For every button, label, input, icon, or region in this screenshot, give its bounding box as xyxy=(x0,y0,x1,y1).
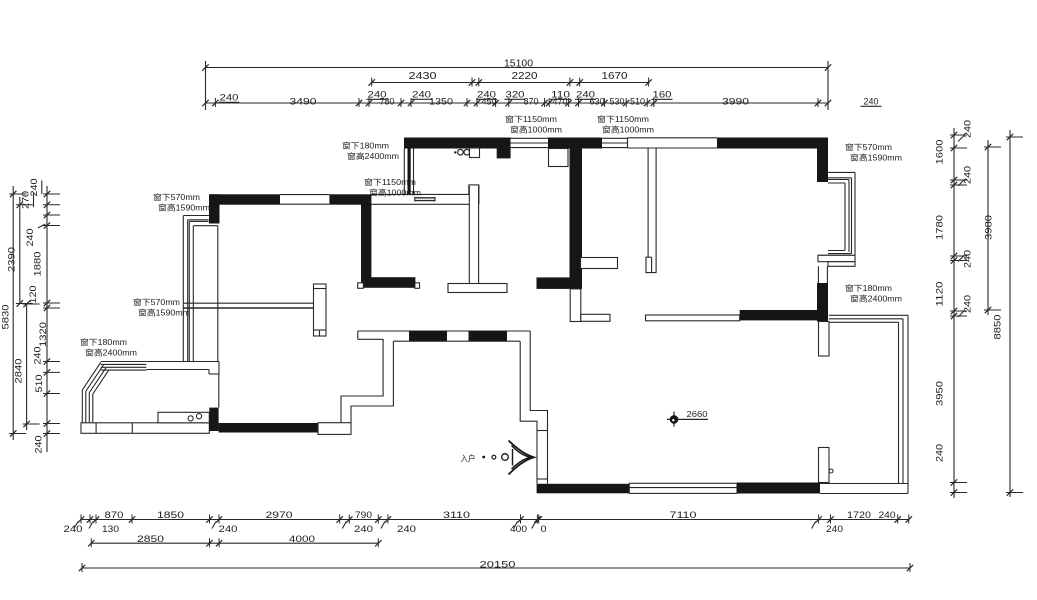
outer wall top-3 (black) xyxy=(718,138,828,149)
svg-text:510: 510 xyxy=(630,97,645,107)
2660 survey marker xyxy=(673,412,675,427)
svg-text:1350: 1350 xyxy=(429,97,453,107)
svg-text:160: 160 xyxy=(653,90,672,100)
svg-text:130: 130 xyxy=(102,524,119,534)
fixture circle xyxy=(458,149,464,155)
svg-text:3490: 3490 xyxy=(290,97,317,107)
window gap bedroom1 top wall xyxy=(280,194,329,196)
door frame square A xyxy=(358,283,364,289)
svg-text:3980: 3980 xyxy=(984,215,994,240)
balcony top edge lines xyxy=(829,314,908,316)
upper-left wall column of top section xyxy=(403,149,405,195)
svg-text:1780: 1780 xyxy=(935,215,945,240)
svg-text:2850: 2850 xyxy=(137,534,164,544)
svg-text:240: 240 xyxy=(64,524,83,534)
svg-text:470: 470 xyxy=(553,97,568,107)
svg-text:240: 240 xyxy=(879,510,896,520)
svg-text:240: 240 xyxy=(935,444,945,462)
svg-text:窗高1000mm: 窗高1000mm xyxy=(510,125,562,135)
hall black L wall horizontal xyxy=(537,277,583,289)
left dim inner line xyxy=(46,186,48,452)
balcony/bottom-right band xyxy=(820,483,908,485)
svg-text:窗下1150mm: 窗下1150mm xyxy=(505,114,557,124)
corridor south wall black xyxy=(740,310,819,320)
corridor south bar 1 (L) xyxy=(570,289,581,322)
svg-text:240: 240 xyxy=(397,524,416,534)
bedroom1 left wall (black) xyxy=(209,194,220,223)
wall outline between bedroom1 and hall (top y194-204) xyxy=(371,193,469,195)
svg-text:450: 450 xyxy=(482,97,497,107)
svg-text:1850: 1850 xyxy=(157,510,184,520)
svg-text:窗下570mm: 窗下570mm xyxy=(845,142,892,152)
svg-text:1670: 1670 xyxy=(602,71,629,82)
svg-text:窗高2400mm: 窗高2400mm xyxy=(850,294,902,304)
entry wall divisions xyxy=(537,430,548,432)
window W2 in top wall xyxy=(602,137,628,139)
svg-text:530: 530 xyxy=(610,97,625,107)
svg-text:窗高1000mm: 窗高1000mm xyxy=(602,125,654,135)
door knob circle xyxy=(829,469,833,473)
outer wall top-1 (black) xyxy=(404,138,511,149)
svg-text:3110: 3110 xyxy=(443,510,470,520)
fixture dot xyxy=(454,151,456,153)
svg-text:240: 240 xyxy=(25,229,35,247)
bedroom1 top wall black-1 xyxy=(210,194,280,204)
svg-text:1880: 1880 xyxy=(33,252,43,277)
kitchen sill band xyxy=(81,423,209,434)
svg-text:400: 400 xyxy=(510,524,527,534)
svg-text:240: 240 xyxy=(963,250,973,268)
right wall stub upper (white) xyxy=(819,322,830,357)
svg-text:630: 630 xyxy=(590,97,605,107)
entry band black-2 xyxy=(469,331,508,341)
door bar right of black wall xyxy=(581,258,618,269)
entry top band outline xyxy=(358,330,530,332)
kitchen left interior wall xyxy=(218,374,220,408)
left dim 2840 line xyxy=(26,304,28,431)
kitchen bay diagonal window xyxy=(82,362,101,390)
svg-text:窗高1000mm: 窗高1000mm xyxy=(369,188,421,198)
right bay sill bar xyxy=(818,255,855,261)
left dim 2390 line xyxy=(19,197,21,304)
svg-text:窗高2400mm: 窗高2400mm xyxy=(85,348,137,358)
outer wall right mid (black) xyxy=(817,283,828,322)
svg-text:入户: 入户 xyxy=(461,454,476,464)
entry swing symbol xyxy=(509,441,535,475)
svg-text:1720: 1720 xyxy=(847,510,871,520)
svg-text:窗下1150mm: 窗下1150mm xyxy=(364,177,416,187)
svg-text:2660: 2660 xyxy=(687,409,708,419)
window W3 long window top wall xyxy=(628,137,718,139)
svg-text:5830: 5830 xyxy=(1,305,11,330)
svg-text:2430: 2430 xyxy=(409,71,438,82)
svg-text:窗下1150mm: 窗下1150mm xyxy=(597,114,649,124)
svg-text:1600: 1600 xyxy=(935,140,945,165)
interior wall bedroom1 bottom (double line) xyxy=(183,302,314,304)
svg-text:240: 240 xyxy=(33,347,43,365)
kitchen black pier xyxy=(209,408,218,431)
svg-text:240: 240 xyxy=(826,524,843,534)
bedroom1 bottom wall (black) xyxy=(363,277,415,288)
svg-text:2840: 2840 xyxy=(14,359,24,384)
dim line top row2 xyxy=(372,82,649,84)
bottom window band (living) xyxy=(629,483,737,493)
dim line bottom overall 20150 xyxy=(82,567,910,569)
svg-text:窗高2400mm: 窗高2400mm xyxy=(347,151,399,161)
svg-text:510: 510 xyxy=(34,375,44,393)
black pier below top wall xyxy=(497,149,511,159)
dim line bottom row2 xyxy=(91,542,378,544)
outer wall right upper (black) xyxy=(817,138,828,183)
left bay window nested lines xyxy=(183,215,209,217)
partition T vertical (double line) xyxy=(468,186,470,284)
left dim 240 top ext xyxy=(41,181,43,195)
door frame rect (hall door) xyxy=(549,149,569,167)
svg-text:870: 870 xyxy=(524,97,539,107)
right dim inner line xyxy=(953,128,955,498)
svg-text:870: 870 xyxy=(105,510,124,520)
bedroom1 top wall black-2 xyxy=(329,194,371,204)
svg-text:1120: 1120 xyxy=(935,282,945,307)
svg-text:240: 240 xyxy=(354,524,373,534)
svg-text:20150: 20150 xyxy=(480,560,516,571)
svg-text:1320: 1320 xyxy=(38,322,48,347)
svg-text:窗下180mm: 窗下180mm xyxy=(80,337,127,347)
entry right wall inner xyxy=(520,341,537,484)
right wall thin segment below bay xyxy=(817,266,819,283)
svg-text:2970: 2970 xyxy=(266,510,293,520)
svg-text:240: 240 xyxy=(219,524,238,534)
door leaf symbol in wall xyxy=(415,197,435,199)
kitchen top wall double line xyxy=(146,361,219,363)
partition bedroom2 (double line + foot) xyxy=(646,149,656,273)
svg-text:2220: 2220 xyxy=(512,71,539,82)
svg-text:7110: 7110 xyxy=(670,510,697,520)
corridor south bar 2 xyxy=(646,315,740,321)
dim line top overall 15100 xyxy=(206,67,829,69)
kitchen bay vertical window lines xyxy=(81,390,83,423)
right dim middle line 3980 xyxy=(987,140,989,315)
svg-text:窗下570mm: 窗下570mm xyxy=(133,297,180,307)
left dim outer line 5830 xyxy=(12,186,14,440)
svg-text:8850: 8850 xyxy=(993,315,1003,340)
hall black L wall vertical xyxy=(570,149,583,289)
dim line top row3 xyxy=(206,102,829,104)
svg-text:240: 240 xyxy=(34,436,44,454)
fixture D-shape xyxy=(464,149,470,155)
svg-text:240: 240 xyxy=(220,93,239,103)
svg-text:窗下570mm: 窗下570mm xyxy=(153,192,200,202)
partition T foot bar xyxy=(448,284,507,293)
right bay sill step xyxy=(828,262,855,267)
svg-text:320: 320 xyxy=(506,90,525,100)
bottom wall black-left (entry) xyxy=(537,484,630,494)
svg-text:15100: 15100 xyxy=(504,59,533,70)
svg-text:窗下180mm: 窗下180mm xyxy=(342,141,389,151)
left dim 270 seg xyxy=(33,193,35,207)
outer wall top-2 (black) xyxy=(548,138,602,149)
dim line bottom row1 xyxy=(81,519,909,521)
svg-text:窗下180mm: 窗下180mm xyxy=(845,283,892,293)
entry right wall outer xyxy=(530,331,547,484)
balcony right edge lines xyxy=(898,322,900,483)
door frame square B xyxy=(415,283,420,289)
svg-text:3950: 3950 xyxy=(935,381,945,406)
svg-text:790: 790 xyxy=(355,510,372,520)
window W1 in top wall (3 lines) xyxy=(511,137,549,139)
svg-text:4000: 4000 xyxy=(289,534,315,544)
svg-text:2390: 2390 xyxy=(7,247,17,272)
entry step wall (double line) xyxy=(341,339,383,423)
wall stub I-beam xyxy=(314,284,327,336)
entry dots xyxy=(482,456,485,459)
svg-text:窗高1590mm: 窗高1590mm xyxy=(850,153,902,163)
kitchen bottom wall black xyxy=(219,423,318,433)
kitchen counter xyxy=(158,412,209,423)
kitchen top window (4 lines) xyxy=(101,361,147,363)
bedroom1 right wall (black) xyxy=(361,204,371,283)
svg-text:3990: 3990 xyxy=(722,97,749,107)
svg-text:240: 240 xyxy=(864,97,879,107)
svg-text:780: 780 xyxy=(380,97,395,107)
right wall stub lower (white) xyxy=(819,448,830,483)
entry band black-1 xyxy=(409,331,447,341)
fixture rect xyxy=(470,148,480,158)
svg-text:窗高1590mm: 窗高1590mm xyxy=(158,203,210,213)
kitchen sink circles xyxy=(188,416,193,421)
kitchen bottom wall white seg xyxy=(318,423,351,435)
bottom wall black-right xyxy=(737,483,820,494)
svg-text:240: 240 xyxy=(963,166,973,184)
right bay window nested brackets xyxy=(828,171,855,173)
svg-text:0: 0 xyxy=(541,524,547,534)
svg-text:窗高1590mm: 窗高1590mm xyxy=(138,308,190,318)
right dim outer line 8850 xyxy=(1009,130,1011,497)
